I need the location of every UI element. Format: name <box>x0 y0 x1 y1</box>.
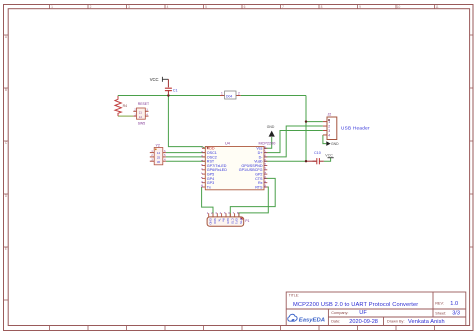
svg-text:B: B <box>5 88 7 92</box>
svg-text:4: 4 <box>167 5 169 9</box>
svg-text:U4: U4 <box>225 141 230 145</box>
wire D- to USB pin2 <box>264 126 323 157</box>
wire Tx to P1 pin2 <box>202 187 213 217</box>
svg-text:Rx: Rx <box>222 218 226 222</box>
svg-text:R4: R4 <box>123 104 128 108</box>
wire VCC rail top horizontal right segment <box>241 95 306 97</box>
svg-text:7: 7 <box>282 5 284 9</box>
P1 pin stubs <box>209 213 239 217</box>
svg-text:3: 3 <box>328 129 330 133</box>
wire USB pin4 to GND flag <box>323 135 326 144</box>
svg-text:9: 9 <box>359 5 361 9</box>
svg-text:10: 10 <box>200 184 204 188</box>
svg-text:Y2: Y2 <box>156 143 160 147</box>
U4 right pin numbers <box>263 146 267 188</box>
IC U4 MCP2200 <box>200 141 275 190</box>
frame margin labels <box>5 5 439 251</box>
svg-text:GND: GND <box>209 218 213 224</box>
ferrite bead D04 <box>220 91 241 99</box>
capacitor C1 <box>165 88 178 95</box>
VCC net flag near C10 <box>325 154 333 158</box>
svg-text:3: 3 <box>128 5 130 9</box>
svg-text:VCC: VCC <box>325 154 333 158</box>
U4 right pin names <box>239 147 264 190</box>
svg-text:VCC: VCC <box>213 218 217 224</box>
svg-text:36: 36 <box>157 160 161 164</box>
wire C10 right to VCC flag <box>324 158 331 162</box>
svg-text:14: 14 <box>157 151 161 155</box>
svg-text:16: 16 <box>263 154 267 158</box>
svg-text:6: 6 <box>244 5 246 9</box>
wire VCC rail top horizontal left segment <box>118 95 220 97</box>
svg-text:J2: J2 <box>328 112 332 116</box>
junction VCC rail to USB pin1 <box>305 120 307 122</box>
svg-text:Drawn By:: Drawn By: <box>387 320 405 324</box>
svg-text:5: 5 <box>205 5 207 9</box>
svg-text:13: 13 <box>263 167 267 171</box>
wire Y2 pin to OSC1 <box>166 152 205 154</box>
EasyEDA logo <box>288 314 325 323</box>
USB header J2 <box>323 112 370 139</box>
U4 left pin names <box>207 147 227 190</box>
GND flag near U4 <box>267 125 275 136</box>
svg-text:1: 1 <box>51 5 53 9</box>
wire Vusb to C10 <box>264 160 306 162</box>
svg-text:20: 20 <box>263 184 267 188</box>
U4 left pin numbers <box>200 146 204 188</box>
svg-text:C1: C1 <box>173 89 178 93</box>
svg-text:Tx: Tx <box>207 185 211 189</box>
svg-text:15: 15 <box>263 158 267 162</box>
svg-text:EasyEDA: EasyEDA <box>299 317 325 323</box>
wire Y2 pin to RST <box>166 160 205 162</box>
frame column ticks bottom <box>50 326 435 331</box>
junction at C1 and VCC rail <box>167 94 169 96</box>
svg-text:25: 25 <box>157 156 161 160</box>
wire Y2 pin to OSC2 <box>166 156 205 158</box>
svg-text:E: E <box>5 247 7 251</box>
svg-text:C10: C10 <box>314 151 321 155</box>
svg-text:1.0: 1.0 <box>450 301 458 307</box>
capacitor C10 <box>313 151 324 164</box>
wire VDD drop from junction to U4 pin VDD <box>168 96 205 149</box>
svg-text:4: 4 <box>328 134 330 138</box>
wire R4 bottom to SW5 <box>118 115 133 117</box>
wire RTS to P1 pin8 <box>239 187 268 217</box>
frame row ticks left <box>4 35 9 300</box>
U4 right pin stubs <box>264 148 267 187</box>
wire R4 top connection <box>117 96 119 97</box>
resistor R4 <box>115 96 127 116</box>
wire CTS to P1 pin6 <box>230 178 275 217</box>
P1 pin labels <box>209 218 243 224</box>
svg-text:8: 8 <box>321 5 323 9</box>
svg-text:2: 2 <box>90 5 92 9</box>
svg-text:USB Header: USB Header <box>341 126 370 131</box>
svg-text:GP1: GP1 <box>235 218 239 224</box>
svg-text:UF: UF <box>359 310 367 316</box>
svg-text:MCP2200: MCP2200 <box>259 141 276 145</box>
svg-text:18: 18 <box>263 146 267 150</box>
svg-text:RTS: RTS <box>255 185 263 189</box>
svg-text:11: 11 <box>263 180 267 183</box>
title block <box>286 292 466 326</box>
switch SW5 <box>133 102 149 126</box>
VCC net flag top <box>150 77 169 88</box>
svg-text:Date:: Date: <box>331 320 340 324</box>
svg-text:TITLE:: TITLE: <box>289 294 299 298</box>
svg-text:Venkata Anish: Venkata Anish <box>408 319 445 325</box>
svg-text:Company:: Company: <box>331 311 348 315</box>
wire VCC rail right vertical down <box>305 96 307 162</box>
P1 pin numbers <box>207 211 239 215</box>
svg-text:2020-09-28: 2020-09-28 <box>349 319 378 325</box>
frame row ticks right <box>470 35 473 247</box>
svg-text:17: 17 <box>263 150 267 154</box>
frame column ticks top <box>50 5 435 9</box>
crystal Y2 <box>150 143 166 165</box>
wire D+ to USB pin3 <box>264 131 323 153</box>
svg-text:1: 1 <box>328 120 330 124</box>
svg-text:2: 2 <box>238 91 240 95</box>
wire Vss to GND flag <box>264 137 272 148</box>
svg-text:14: 14 <box>263 163 267 167</box>
svg-text:10: 10 <box>397 5 401 9</box>
svg-text:MCP2200 USB 2.0 to UART Protoc: MCP2200 USB 2.0 to UART Protocol Convert… <box>293 302 418 308</box>
GND flag near USB header <box>326 141 339 146</box>
svg-text:GND: GND <box>331 142 339 146</box>
connector P1 <box>207 211 250 226</box>
svg-text:12: 12 <box>263 171 267 175</box>
svg-text:GP0: GP0 <box>226 218 230 224</box>
svg-text:SW5: SW5 <box>138 121 145 125</box>
svg-text:VCC: VCC <box>150 77 159 82</box>
svg-text:RTS: RTS <box>239 218 243 224</box>
svg-text:19: 19 <box>263 176 267 180</box>
U4 left pin stubs <box>202 148 205 187</box>
svg-text:11: 11 <box>435 5 439 9</box>
svg-text:Sheet:: Sheet: <box>435 311 446 315</box>
svg-text:3/3: 3/3 <box>452 311 460 317</box>
junction VCC rail to Vusb wire <box>305 160 307 162</box>
svg-text:CTS: CTS <box>230 218 234 224</box>
svg-text:2: 2 <box>328 125 330 129</box>
svg-text:REV:: REV: <box>435 301 444 305</box>
wire VCC to USB pin1 <box>306 121 323 123</box>
svg-text:1: 1 <box>221 91 223 95</box>
svg-text:GND: GND <box>267 125 275 129</box>
svg-text:D04: D04 <box>226 94 232 98</box>
svg-text:P1: P1 <box>245 219 249 223</box>
svg-text:RESET: RESET <box>138 102 149 106</box>
